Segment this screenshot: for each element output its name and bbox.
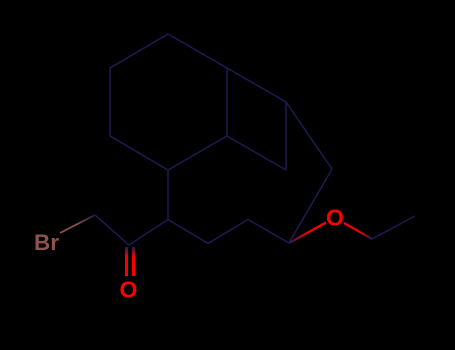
ring B bond: upper diagonal xyxy=(227,68,286,102)
bond Br-CH2 xyxy=(60,215,95,233)
svg-text:Br: Br xyxy=(34,230,59,255)
svg-text:O: O xyxy=(326,205,344,231)
svg-text:O: O xyxy=(120,277,138,303)
carbonyl C=O double bond line 2 xyxy=(132,247,135,276)
ring B bond: right vertical xyxy=(285,102,287,170)
benzene ring A outline xyxy=(110,34,227,170)
bond ring A bottom vertex to C2 xyxy=(167,170,169,220)
bond C3-C4 xyxy=(208,220,248,244)
bond C4-C5 xyxy=(248,220,289,244)
bond C5-O ether xyxy=(289,223,326,244)
ring B bond: lower diagonal xyxy=(227,136,286,170)
bond C6-C7 ethyl terminal xyxy=(372,216,415,239)
ring B bond: upper diagonal extension xyxy=(286,102,332,169)
bond O-C6 ethyl xyxy=(344,223,372,239)
bond C2-C3 xyxy=(168,220,208,244)
carbonyl C=O double bond line 1 xyxy=(125,247,128,276)
bond C1-C2 xyxy=(129,220,168,246)
bond CH2-C1 xyxy=(95,215,129,245)
bond ring B right vertex to chain C5 xyxy=(289,169,332,243)
